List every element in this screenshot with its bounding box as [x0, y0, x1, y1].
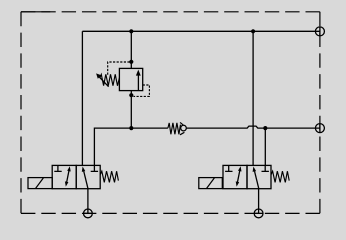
V1 left box blocked port T [54, 165, 61, 171]
U1 spring adjustment arrow [96, 73, 109, 86]
V1 right box blocked port T [91, 165, 98, 171]
border solid bar through port P2 [319, 124, 321, 133]
V2 lever diagonal [207, 178, 215, 189]
check valve CV1 spring [168, 123, 181, 134]
check valve CV1 ball [181, 125, 187, 131]
wire: drop to V2 port 2 x=265.3 [264, 128, 266, 165]
border solid bar through port P3 [84, 212, 93, 214]
valve V2 body left box [223, 165, 247, 188]
V1 lever diagonal [36, 178, 44, 189]
wire: V1 port 3 drop to port circle P3 [87, 189, 89, 214]
junction dot relief valve pilot top [129, 60, 133, 64]
junction dot on top bus at relief branch [129, 29, 133, 33]
border solid bar through port P1 [319, 27, 321, 36]
junction dot mid bus at V2 port 2 branch [263, 126, 267, 130]
port circle P4 (bottom right) [254, 209, 263, 218]
enclosure dashed border [21, 12, 320, 214]
U1 adjustable spring [100, 74, 119, 85]
check valve CV1 seat upper tick [180, 122, 183, 125]
valve V1 body left box [52, 165, 76, 188]
check valve CV1 seat lower tick [180, 132, 184, 135]
V1 right box flow arrow (port1 to port3) [82, 167, 88, 189]
V2 right box flow arrow (port1 to port3) [253, 167, 259, 189]
junction dot mid bus at relief branch [129, 126, 133, 130]
valve V1 body right box [76, 165, 100, 188]
U1 pilot line right (dashed) [133, 85, 149, 96]
junction dot on top bus at V2 branch [251, 29, 255, 33]
U1 internal flow arrow [136, 70, 141, 91]
U1 pilot line left (dashed) [108, 62, 130, 76]
port circle P2 (right mid) [315, 124, 324, 133]
wire: mid bus right of check valve with hop over x=253.1 [186, 126, 320, 128]
V1 return spring [100, 171, 118, 182]
wire: left drop x=82.4 to valve V1 port 1 [81, 31, 83, 165]
V2 manual lever actuator box [199, 178, 223, 189]
V1 left box double-headed flow arrow [65, 166, 71, 186]
V2 left box blocked port T [225, 165, 232, 171]
port circle P1 (top right) [315, 27, 324, 36]
V1 manual lever actuator box [28, 178, 52, 189]
wire: relief valve branch x=131.3 top [130, 31, 132, 68]
junction dot relief valve pilot bottom [129, 93, 133, 97]
wire: V1 port 2 riser and mid bus left segment [94, 128, 167, 165]
border solid bar through port P4 [254, 212, 263, 214]
V2 left box double-headed flow arrow [236, 166, 242, 186]
wire: top bus y=31.3 from node A to port 2 circle [82, 30, 320, 32]
wire: V2 port 3 drop to port circle P4 [258, 189, 260, 214]
V2 return spring [271, 171, 289, 182]
port circle P3 (bottom left) [84, 209, 93, 218]
V2 right box blocked port T [262, 165, 269, 171]
wire: relief valve branch x=131.3 bottom [130, 91, 132, 129]
valve V2 body right box [247, 165, 271, 188]
wire: drop to V2 port 1 x=253.1 [252, 31, 254, 165]
pressure relief valve U1 body [119, 68, 142, 90]
